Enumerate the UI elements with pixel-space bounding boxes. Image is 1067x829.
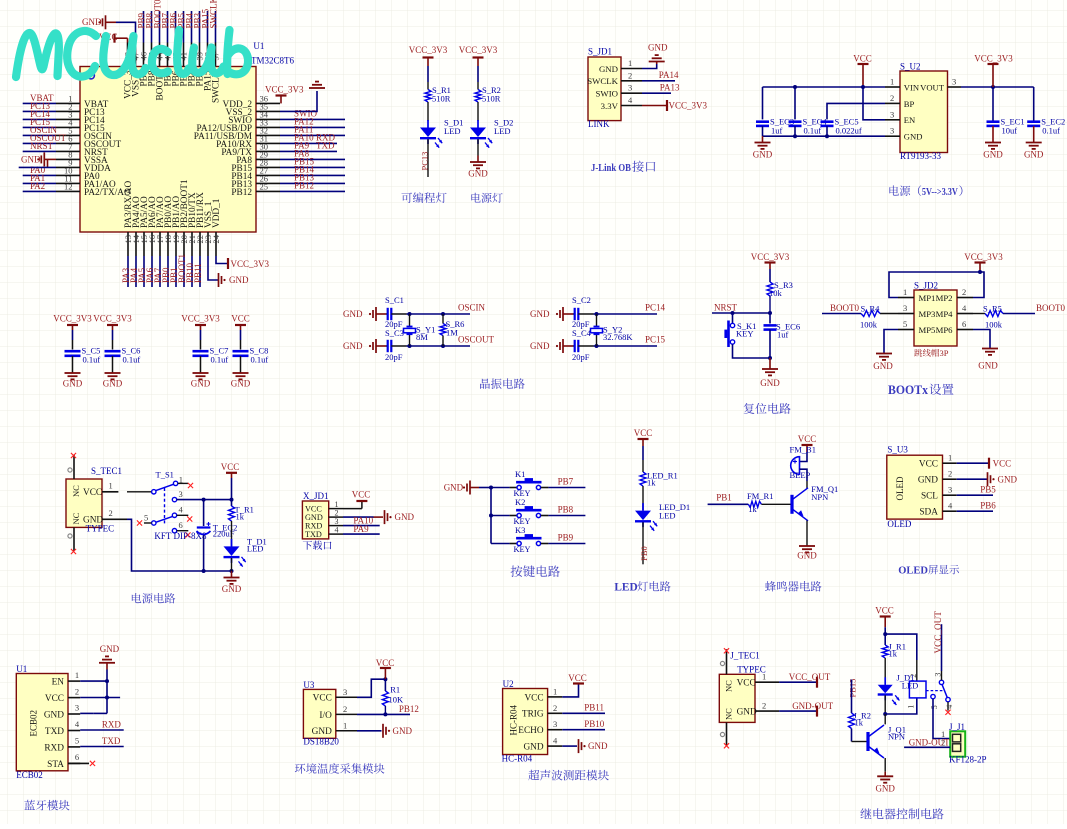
svg-text:3: 3: [890, 126, 894, 136]
svg-text:32.768K: 32.768K: [603, 332, 633, 342]
svg-text:510R: 510R: [432, 94, 451, 104]
svg-text:PB15: PB15: [848, 679, 858, 698]
svg-text:12: 12: [64, 182, 73, 192]
svg-text:4: 4: [945, 705, 954, 709]
svg-text:DS18B20: DS18B20: [303, 736, 339, 746]
svg-text:PA13: PA13: [660, 83, 680, 93]
svg-text:PC13: PC13: [420, 152, 430, 171]
svg-text:GND: GND: [998, 474, 1018, 484]
svg-text:FM_B1: FM_B1: [790, 445, 816, 455]
svg-text:1: 1: [907, 705, 916, 709]
svg-text:U1: U1: [253, 41, 264, 51]
svg-text:S_R5: S_R5: [983, 304, 1002, 314]
svg-text:1: 1: [109, 480, 113, 490]
svg-text:SWCLK: SWCLK: [208, 0, 218, 29]
svg-text:3: 3: [890, 109, 894, 119]
svg-text:OSCOUT: OSCOUT: [458, 334, 495, 344]
svg-text:VCC_3V3: VCC_3V3: [231, 259, 270, 269]
svg-text:PA9: PA9: [353, 524, 369, 534]
svg-text:GND: GND: [393, 726, 413, 736]
svg-text:GND-OUT: GND-OUT: [792, 701, 833, 711]
svg-text:NPN: NPN: [888, 731, 905, 741]
svg-text:SCL: SCL: [921, 492, 938, 502]
svg-text:OLED: OLED: [887, 519, 911, 529]
svg-text:10K: 10K: [389, 694, 405, 704]
svg-text:LED: LED: [659, 511, 676, 521]
svg-text:PB8: PB8: [558, 504, 574, 514]
svg-text:3: 3: [343, 687, 347, 697]
svg-text:GND: GND: [523, 743, 543, 753]
svg-text:SWIO: SWIO: [596, 89, 618, 99]
svg-text:GND: GND: [797, 551, 817, 561]
svg-text:ECHO: ECHO: [518, 726, 544, 736]
svg-text:0.1uf: 0.1uf: [83, 354, 101, 364]
svg-text:1k: 1k: [889, 649, 898, 659]
svg-text:J-Link OB: J-Link OB: [591, 162, 631, 174]
svg-text:5V-->3.3V: 5V-->3.3V: [922, 187, 958, 198]
svg-text:J_TEC1: J_TEC1: [730, 651, 760, 661]
svg-text:PA14: PA14: [659, 70, 679, 80]
svg-text:NC: NC: [71, 485, 81, 497]
svg-text:HC-R04: HC-R04: [509, 704, 519, 735]
svg-text:0.1uf: 0.1uf: [251, 354, 269, 364]
svg-text:VCC_3V3: VCC_3V3: [964, 252, 1003, 262]
svg-text:2: 2: [909, 674, 918, 678]
svg-text:1uf: 1uf: [777, 330, 789, 340]
svg-text:VCC_OUT: VCC_OUT: [933, 611, 943, 654]
svg-text:EN: EN: [52, 678, 65, 688]
svg-text:PC14: PC14: [645, 302, 666, 312]
svg-text:ECB02: ECB02: [16, 770, 43, 780]
svg-text:GND: GND: [983, 150, 1003, 160]
svg-text:1: 1: [553, 686, 557, 696]
svg-text:2: 2: [948, 469, 952, 479]
svg-text:GND: GND: [588, 741, 608, 751]
svg-text:VCC_3V3: VCC_3V3: [53, 314, 92, 324]
svg-text:10k: 10k: [769, 288, 783, 298]
svg-text:GND: GND: [648, 43, 668, 53]
svg-text:VCC: VCC: [634, 428, 653, 438]
svg-text:6: 6: [75, 752, 79, 762]
svg-text:6: 6: [962, 319, 966, 329]
svg-text:NC: NC: [71, 512, 81, 524]
svg-text:3: 3: [948, 485, 952, 495]
svg-text:VCC: VCC: [875, 606, 894, 616]
svg-text:S_C4: S_C4: [572, 328, 592, 338]
svg-text:SDA: SDA: [919, 508, 938, 518]
svg-text:GND: GND: [83, 516, 103, 526]
svg-text:VCC: VCC: [352, 489, 371, 499]
svg-text:TRIG: TRIG: [522, 710, 544, 720]
svg-text:MP3: MP3: [919, 309, 936, 319]
svg-text:HC-R04: HC-R04: [502, 754, 533, 764]
svg-text:10uf: 10uf: [1002, 126, 1018, 136]
svg-text:ECB02: ECB02: [29, 710, 39, 737]
svg-text:VCC_3V3: VCC_3V3: [974, 54, 1013, 64]
svg-text:20pF: 20pF: [385, 352, 403, 362]
svg-text:PB0: PB0: [639, 546, 649, 561]
svg-text:VCC: VCC: [221, 462, 240, 472]
svg-text:VOUT: VOUT: [920, 82, 945, 92]
svg-text:OLED: OLED: [895, 476, 905, 500]
svg-text:MP6: MP6: [936, 325, 954, 335]
svg-text:BP: BP: [904, 99, 915, 109]
svg-text:S_C1: S_C1: [385, 295, 404, 305]
svg-text:GND: GND: [231, 379, 251, 389]
svg-text:5: 5: [903, 319, 907, 329]
svg-text:VCC_3V3: VCC_3V3: [181, 314, 220, 324]
svg-text:OSCIN: OSCIN: [458, 302, 486, 312]
svg-text:5: 5: [144, 512, 148, 522]
svg-text:K2: K2: [515, 497, 525, 507]
svg-text:S_TEC1: S_TEC1: [91, 466, 122, 476]
svg-text:NRST: NRST: [30, 141, 54, 151]
svg-text:RXD: RXD: [102, 720, 122, 730]
svg-text:GND: GND: [191, 379, 211, 389]
svg-text:VCC: VCC: [919, 460, 938, 470]
svg-text:GND: GND: [875, 784, 895, 794]
svg-text:2: 2: [75, 686, 79, 696]
svg-text:1k: 1k: [647, 478, 656, 488]
svg-text:LED: LED: [494, 126, 511, 136]
svg-text:NC: NC: [724, 708, 734, 720]
svg-text:GND: GND: [468, 169, 488, 179]
svg-text:S_JD1: S_JD1: [588, 47, 612, 57]
svg-text:0.1uf: 0.1uf: [1042, 126, 1060, 136]
svg-text:U1: U1: [16, 664, 27, 674]
svg-text:VCC_OUT: VCC_OUT: [789, 672, 831, 682]
svg-text:TXD: TXD: [45, 727, 64, 737]
svg-text:GND: GND: [530, 309, 550, 319]
svg-text:1uf: 1uf: [771, 126, 783, 136]
svg-text:LED: LED: [614, 582, 637, 594]
svg-text:MP5: MP5: [919, 325, 936, 335]
svg-text:GND: GND: [312, 727, 332, 737]
svg-text:LED: LED: [444, 126, 461, 136]
svg-text:GND: GND: [904, 132, 923, 142]
svg-text:VCC: VCC: [853, 54, 872, 64]
svg-text:2: 2: [553, 703, 557, 713]
svg-text:U2: U2: [503, 679, 514, 689]
svg-text:FM_R1: FM_R1: [747, 491, 773, 501]
svg-text:25: 25: [260, 182, 269, 192]
svg-text:1: 1: [628, 58, 632, 68]
svg-text:PB12: PB12: [399, 704, 419, 714]
svg-text:3: 3: [553, 719, 557, 729]
svg-text:K3: K3: [515, 525, 525, 535]
svg-text:0.1uf: 0.1uf: [123, 354, 141, 364]
svg-text:U3: U3: [303, 680, 314, 690]
svg-text:PB1: PB1: [716, 492, 732, 502]
svg-text:STM32C8T6: STM32C8T6: [246, 56, 295, 66]
svg-text:3: 3: [952, 77, 956, 87]
svg-text:S_U2: S_U2: [900, 62, 921, 72]
svg-text:VIN: VIN: [904, 82, 920, 92]
svg-text:5: 5: [75, 736, 79, 746]
svg-text:VCC: VCC: [313, 694, 332, 704]
svg-text:GND: GND: [599, 64, 618, 74]
svg-text:EN: EN: [904, 115, 916, 125]
svg-text:X_JD1: X_JD1: [303, 491, 329, 501]
svg-text:1k: 1k: [236, 511, 245, 521]
svg-text:J_J1: J_J1: [949, 722, 965, 732]
svg-text:GND: GND: [343, 341, 363, 351]
svg-text:4: 4: [335, 525, 339, 534]
svg-text:TXD: TXD: [316, 140, 335, 150]
svg-text:BOOT0: BOOT0: [1036, 303, 1065, 313]
svg-text:GND: GND: [760, 378, 780, 388]
svg-text:S_C3: S_C3: [385, 328, 404, 338]
svg-text:GND: GND: [737, 708, 757, 718]
svg-text:1: 1: [343, 720, 347, 730]
svg-text:SWCLK: SWCLK: [587, 76, 618, 86]
svg-text:S_R4: S_R4: [861, 304, 881, 314]
svg-text:KF128-2P: KF128-2P: [949, 754, 987, 764]
svg-text:OLED: OLED: [898, 566, 928, 577]
svg-text:VCC_3V3: VCC_3V3: [459, 45, 498, 55]
svg-text:8M: 8M: [416, 332, 428, 342]
svg-text:VCC_3V3: VCC_3V3: [409, 45, 448, 55]
svg-text:GND: GND: [343, 309, 363, 319]
svg-text:VCC_3V3: VCC_3V3: [265, 84, 304, 94]
svg-text:BOOTx: BOOTx: [888, 383, 929, 397]
svg-text:5: 5: [930, 705, 939, 709]
svg-text:NRST: NRST: [714, 302, 738, 312]
svg-text:VCC: VCC: [83, 488, 102, 498]
svg-text:MP2: MP2: [936, 293, 953, 303]
svg-text:2: 2: [628, 70, 632, 80]
svg-text:GND: GND: [100, 644, 120, 654]
svg-text:GND: GND: [1024, 150, 1044, 160]
svg-text:GND: GND: [444, 483, 464, 493]
svg-text:1: 1: [948, 453, 952, 463]
svg-text:GND-OUT: GND-OUT: [909, 738, 950, 748]
svg-text:VCC_3V3: VCC_3V3: [93, 314, 132, 324]
svg-text:GND: GND: [44, 710, 64, 720]
svg-text:100k: 100k: [860, 320, 878, 330]
svg-text:GND: GND: [229, 275, 249, 285]
svg-text:2: 2: [962, 287, 966, 297]
svg-text:510R: 510R: [482, 94, 501, 104]
svg-text:MP4: MP4: [936, 309, 954, 319]
svg-text:VCC: VCC: [376, 658, 395, 668]
svg-text:1k: 1k: [855, 718, 864, 728]
svg-text:R1: R1: [390, 685, 400, 695]
svg-text:S_JD2: S_JD2: [914, 281, 938, 291]
svg-text:GND: GND: [873, 361, 893, 371]
svg-text:RXD: RXD: [44, 743, 64, 753]
svg-text:3.3V: 3.3V: [601, 101, 619, 111]
svg-text:VCC: VCC: [993, 458, 1012, 468]
svg-text:PB5: PB5: [980, 485, 996, 495]
svg-text:VCC: VCC: [45, 694, 64, 704]
svg-text:PB12: PB12: [294, 180, 314, 190]
svg-text:20pF: 20pF: [572, 352, 590, 362]
svg-text:1: 1: [903, 287, 907, 297]
svg-text:0.022uf: 0.022uf: [836, 126, 862, 136]
svg-text:GND: GND: [530, 341, 550, 351]
svg-text:LED: LED: [247, 544, 264, 554]
svg-text:3: 3: [934, 673, 943, 677]
svg-text:NC: NC: [724, 680, 734, 692]
svg-text:GND: GND: [918, 476, 938, 486]
svg-text:PB9: PB9: [558, 532, 574, 542]
svg-text:TXD: TXD: [305, 530, 322, 539]
svg-text:GND: GND: [395, 512, 415, 522]
svg-text:2: 2: [890, 93, 894, 103]
svg-text:TXD: TXD: [102, 736, 121, 746]
svg-text:3: 3: [628, 83, 632, 93]
svg-text:1: 1: [762, 672, 766, 682]
svg-text:0.1uf: 0.1uf: [211, 354, 229, 364]
svg-text:PB10: PB10: [584, 719, 605, 729]
svg-text:VCC: VCC: [737, 679, 756, 689]
svg-text:PC15: PC15: [645, 334, 666, 344]
svg-text:3: 3: [903, 303, 907, 313]
svg-text:1: 1: [75, 670, 79, 680]
svg-text:K1: K1: [515, 469, 525, 479]
svg-text:1k: 1k: [748, 504, 757, 514]
svg-text:RT9193-33: RT9193-33: [900, 151, 941, 161]
svg-text:PB6: PB6: [980, 501, 996, 511]
svg-text:PB11: PB11: [193, 263, 203, 283]
svg-text:PB12: PB12: [231, 188, 252, 198]
svg-text:I/O: I/O: [319, 711, 332, 721]
svg-text:2: 2: [109, 508, 113, 518]
svg-text:S_C2: S_C2: [572, 295, 591, 305]
svg-text:GND: GND: [63, 379, 83, 389]
svg-text:VCC_3V3: VCC_3V3: [669, 101, 708, 111]
svg-text:6: 6: [179, 520, 183, 530]
svg-text:GND: GND: [222, 584, 242, 594]
svg-text:KEY: KEY: [514, 545, 531, 554]
svg-text:100k: 100k: [985, 320, 1003, 330]
svg-text:1: 1: [179, 474, 183, 484]
svg-text:GND: GND: [753, 150, 773, 160]
svg-text:LINK: LINK: [588, 119, 610, 129]
svg-text:S_U3: S_U3: [887, 445, 908, 455]
svg-text:VDD_1: VDD_1: [212, 198, 222, 228]
svg-text:MP1: MP1: [919, 293, 936, 303]
svg-text:PB11: PB11: [584, 703, 604, 713]
svg-text:PA2: PA2: [30, 181, 45, 191]
svg-text:24: 24: [211, 234, 221, 243]
svg-text:VCC: VCC: [798, 434, 817, 444]
svg-text:BOOT0: BOOT0: [830, 303, 859, 313]
svg-text:PB7: PB7: [558, 476, 574, 486]
svg-text:GND: GND: [103, 379, 123, 389]
svg-text:3: 3: [179, 489, 183, 499]
svg-text:2: 2: [343, 704, 347, 714]
svg-text:3: 3: [75, 703, 79, 713]
svg-text:3P: 3P: [940, 348, 949, 358]
svg-text:NPN: NPN: [811, 492, 828, 502]
svg-text:VCC: VCC: [231, 314, 250, 324]
svg-text:KEY: KEY: [736, 329, 753, 339]
svg-text:STA: STA: [47, 760, 64, 770]
svg-text:1M: 1M: [446, 328, 458, 338]
svg-text:T_S1: T_S1: [156, 470, 174, 480]
svg-text:0.1uf: 0.1uf: [804, 126, 822, 136]
svg-text:VCC_3V3: VCC_3V3: [751, 252, 790, 262]
svg-text:VCC: VCC: [568, 673, 587, 683]
svg-text:1: 1: [890, 77, 894, 87]
svg-text:2: 2: [762, 701, 766, 711]
svg-text:GND: GND: [978, 361, 998, 371]
svg-text:VCC: VCC: [524, 693, 543, 703]
